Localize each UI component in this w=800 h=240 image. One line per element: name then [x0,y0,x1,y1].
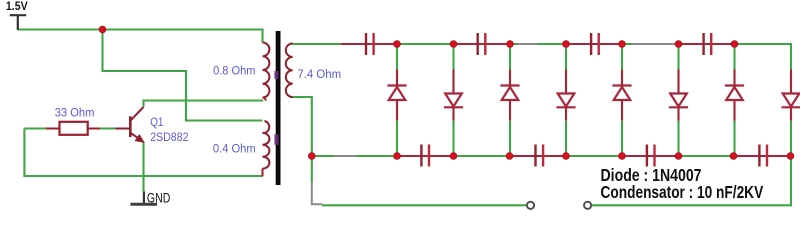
svg-text:Q1: Q1 [150,115,163,129]
svg-text:2SD882: 2SD882 [150,130,188,144]
svg-text:Condensator : 10 nF/2KV: Condensator : 10 nF/2KV [601,182,764,202]
svg-text:1.5V: 1.5V [6,1,28,13]
svg-text:0.4 Ohm: 0.4 Ohm [213,142,256,156]
svg-text:33 Ohm: 33 Ohm [55,105,95,119]
svg-text:GND: GND [147,191,171,206]
svg-text:0.8 Ohm: 0.8 Ohm [213,64,255,78]
svg-text:7.4 Ohm: 7.4 Ohm [297,67,341,81]
